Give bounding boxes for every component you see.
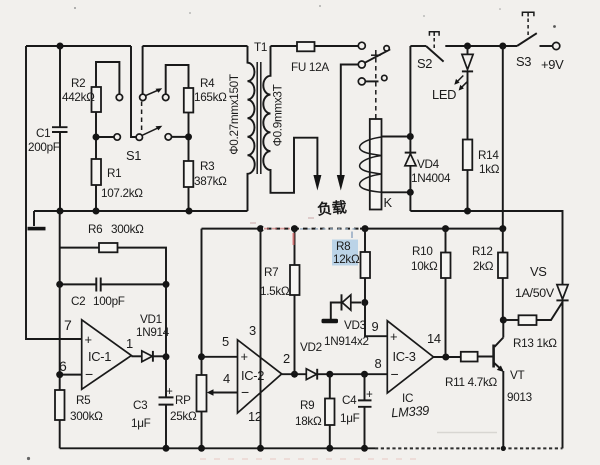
svg-text:R7: R7	[264, 266, 278, 279]
wire RP bottom to rail	[201, 412, 203, 449]
node junction RP top / pin5	[198, 353, 205, 360]
LED VD	[462, 46, 473, 140]
transformer T1 secondary winding	[263, 46, 317, 193]
resistor R11	[461, 352, 494, 362]
svg-text:+9V: +9V	[541, 57, 564, 72]
wire R2 bottom to R1 top	[95, 112, 97, 159]
wire relay common to load arrow	[341, 65, 359, 177]
wire right rail y211	[410, 211, 562, 284]
wire from upper-right contact to R4 top	[166, 65, 189, 94]
svg-text:S2: S2	[417, 56, 432, 71]
svg-text:100pF: 100pF	[93, 295, 125, 308]
svg-text:Φ0.9mmx3T: Φ0.9mmx3T	[272, 84, 285, 146]
resistor R8 (blue highlighted label)	[361, 229, 371, 303]
node junction VT emitter bottom	[501, 446, 506, 451]
svg-text:300kΩ: 300kΩ	[70, 410, 103, 423]
switch S1 lower pole: right contact	[165, 134, 171, 140]
relay armature bar	[371, 54, 381, 56]
transistor VT 9013	[494, 320, 504, 448]
node junction R3 bottom	[186, 208, 193, 215]
wire from upper-left contact to R2 top	[96, 62, 119, 94]
switch S3 arm	[517, 33, 537, 46]
switch S1 upper pole: right contact	[163, 94, 169, 100]
svg-text:R12: R12	[472, 245, 493, 258]
svg-text:1A/50V: 1A/50V	[515, 286, 555, 300]
svg-text:200pF: 200pF	[28, 141, 60, 154]
node junction R10 bottom / output	[442, 354, 449, 361]
wire top middle segment to transformer	[143, 45, 248, 47]
node junction R14 bottom	[464, 208, 471, 215]
scan faint mark bottom right	[437, 432, 497, 434]
node junction bus/R7	[291, 225, 298, 232]
wire S3 to +9V terminal	[540, 45, 553, 47]
node junction +9V column top	[499, 43, 506, 50]
svg-text:442kΩ: 442kΩ	[62, 91, 95, 104]
svg-text:R5: R5	[76, 394, 91, 407]
wire bottom rail (solid part)	[60, 447, 375, 449]
svg-text:+: +	[366, 388, 373, 401]
node junction R4/R3/S1b	[185, 133, 192, 140]
diode VD3	[331, 294, 361, 319]
node junction VD1/C3 column	[163, 353, 170, 360]
svg-text:−: −	[241, 384, 249, 400]
svg-text:1μF: 1μF	[131, 417, 151, 430]
node junction R9 top	[326, 371, 333, 378]
svg-text:VT: VT	[510, 369, 524, 382]
terminal +9V	[553, 42, 560, 49]
node junction LED column top	[464, 43, 471, 50]
resistor R14	[463, 140, 473, 171]
relay armature circle	[384, 46, 389, 51]
wire R3 bottom to rail	[188, 187, 190, 211]
diode VD2	[306, 369, 387, 380]
svg-text:+: +	[85, 332, 92, 347]
relay contact fixed 3	[358, 78, 365, 85]
svg-text:C2: C2	[71, 295, 85, 308]
node junction R9 bottom	[326, 445, 333, 452]
wire to switch S2	[410, 45, 426, 47]
resistor R6	[60, 243, 166, 284]
node junction C3 bottom	[163, 445, 170, 452]
svg-text:R2: R2	[71, 77, 85, 90]
load arrow (secondary side)	[313, 175, 321, 191]
wire left vertical down to IC-1 pin7	[26, 46, 82, 339]
svg-text:107.2kΩ: 107.2kΩ	[101, 187, 143, 200]
svg-text:K: K	[384, 195, 393, 210]
node junction R2/R1/S1b	[93, 134, 100, 141]
svg-text:R9: R9	[300, 399, 314, 412]
svg-text:1: 1	[126, 336, 133, 351]
svg-text:2: 2	[283, 351, 290, 366]
svg-text:R8: R8	[336, 240, 350, 253]
svg-text:300kΩ: 300kΩ	[111, 223, 144, 236]
relay contact common 2	[358, 61, 365, 68]
node coil top	[407, 133, 414, 140]
resistor R13	[503, 302, 562, 325]
svg-text:C1: C1	[36, 127, 50, 140]
switch S2 arm	[426, 46, 444, 62]
svg-text:R3: R3	[200, 160, 214, 173]
svg-text:1kΩ: 1kΩ	[479, 163, 500, 176]
svg-text:1N914x2: 1N914x2	[324, 335, 369, 348]
svg-text:R13 1kΩ: R13 1kΩ	[513, 337, 557, 350]
resistor R1	[92, 159, 102, 185]
node junction C4 bottom	[361, 445, 368, 452]
wire IC-1 pin 6	[60, 374, 82, 376]
switch S1 lower pole: left contact	[114, 134, 120, 140]
svg-text:25kΩ: 25kΩ	[170, 410, 197, 423]
svg-text:1.5kΩ: 1.5kΩ	[260, 285, 290, 298]
wire S1 lower-middle contact feed (from top wire)	[131, 46, 136, 137]
relay contact hook	[382, 75, 387, 80]
svg-text:VD1: VD1	[140, 313, 162, 326]
svg-text:FU 12A: FU 12A	[291, 61, 329, 74]
watermark faded bus segment	[263, 227, 360, 230]
op-amp IC-1	[82, 320, 132, 390]
switch S1 upper pole arm arrow	[146, 90, 159, 96]
svg-text:R6: R6	[88, 223, 102, 236]
capacitor C2	[60, 278, 166, 292]
switch S1 gang link (dashed)	[141, 102, 143, 132]
svg-text:−: −	[391, 366, 399, 382]
node junction bus/pin3 column	[257, 225, 264, 232]
LED emission arrows	[457, 76, 464, 83]
svg-text:9: 9	[372, 319, 379, 334]
wire S2 to S3	[445, 45, 517, 47]
ground symbol	[33, 211, 35, 226]
switch S1 lower pole: moving contact	[136, 134, 142, 140]
wire left column (rail to pin6/R5)	[59, 211, 61, 390]
capacitor C4 (electrolytic)	[358, 374, 373, 448]
svg-text:LED: LED	[432, 87, 456, 102]
op-amp IC-3	[387, 321, 433, 393]
wire RP column (bus left end down)	[201, 229, 203, 375]
resistor R12	[498, 229, 508, 320]
node junction C1 top	[57, 43, 64, 50]
wire VD4 column (top wire corner down to right rail)	[409, 46, 411, 211]
svg-text:4: 4	[223, 371, 230, 386]
relay mechanical link (dashed)	[375, 50, 377, 119]
node junction C4 top	[361, 371, 368, 378]
svg-text:1N914: 1N914	[136, 326, 170, 339]
node junction RP bottom	[198, 445, 205, 452]
resistor R3	[184, 161, 194, 187]
wire IC-2 pin3/pin12 column	[260, 229, 262, 449]
node junction C2 left	[56, 281, 63, 288]
svg-text:12: 12	[248, 409, 262, 424]
svg-text:R4: R4	[200, 77, 215, 90]
wire bottom rail (faded dashed part)	[375, 447, 563, 449]
svg-text:R10: R10	[412, 245, 433, 258]
wire R14 bottom	[467, 170, 469, 211]
wire top-left horizontal segment	[26, 45, 131, 47]
svg-text:C4: C4	[342, 394, 357, 407]
op-amp IC-2	[238, 340, 282, 413]
resistor R9	[325, 374, 335, 448]
resistor R2	[92, 87, 102, 112]
switch S2 button cap	[429, 32, 439, 36]
relay coil winding	[360, 137, 382, 192]
svg-text:1N4004: 1N4004	[411, 172, 451, 185]
svg-text:VD3: VD3	[344, 319, 366, 332]
wire relay contact 3 stub	[365, 80, 378, 82]
node junction R7 bottom / output	[291, 371, 298, 378]
wire IC-3 pin 9	[365, 303, 387, 337]
switch S3 button cap	[522, 12, 534, 16]
wire +9V column down to bus	[502, 46, 504, 229]
wire upper ground rail	[34, 210, 248, 212]
svg-text:R14: R14	[478, 149, 499, 162]
wire R1 bottom to rail	[95, 185, 97, 211]
svg-text:LM339: LM339	[391, 403, 430, 421]
svg-text:+: +	[241, 349, 248, 364]
scan specks top edge	[74, 7, 76, 9]
svg-text:T1: T1	[254, 41, 267, 54]
scan speck top right	[553, 25, 556, 28]
ground symbol (VD3)	[322, 319, 339, 323]
svg-text:Φ0.27mmx150T: Φ0.27mmx150T	[228, 74, 241, 155]
diode VD1	[142, 351, 166, 362]
switch S1 upper pole: moving contact	[140, 94, 146, 100]
node coil bottom	[407, 189, 414, 196]
node junction R1 bottom	[93, 208, 100, 215]
svg-text:IC-3: IC-3	[393, 349, 416, 364]
svg-text:RP: RP	[175, 394, 191, 407]
capacitor C1	[52, 46, 68, 211]
wire R4 bottom to R3 top	[188, 113, 190, 162]
svg-text:VD4: VD4	[417, 158, 440, 171]
svg-text:3: 3	[249, 323, 256, 338]
svg-text:S3: S3	[516, 54, 531, 69]
wire supply bus	[202, 228, 504, 230]
relay contact fixed 1	[358, 42, 365, 49]
svg-text:S1: S1	[126, 148, 141, 163]
switch S1 lower pole arm arrow	[142, 128, 158, 136]
svg-text:IC-1: IC-1	[88, 349, 111, 364]
svg-text:5: 5	[222, 334, 229, 349]
relay armature arm	[365, 49, 390, 62]
node junction bus/+9V column	[499, 225, 506, 232]
wire coil top tap	[382, 136, 411, 138]
wire IC-1 output	[131, 355, 141, 357]
svg-text:14: 14	[427, 331, 441, 346]
relay coil K core	[370, 119, 382, 210]
capacitor C3 (electrolytic)	[159, 284, 174, 448]
fuse FU	[271, 42, 359, 51]
node junction VD3/R8	[361, 299, 368, 306]
svg-text:8: 8	[375, 356, 382, 371]
wire IC-2 pin 5	[202, 356, 238, 358]
wire lower-right contact to R4/R3 junction	[172, 136, 189, 138]
watermark pink at bottom edge	[200, 458, 420, 460]
wire IC-2 pin 4 / RP wiper arrow	[212, 392, 238, 394]
svg-text:165kΩ: 165kΩ	[194, 91, 227, 104]
svg-text:18kΩ: 18kΩ	[295, 415, 322, 428]
svg-text:10kΩ: 10kΩ	[411, 260, 438, 273]
wire R5 bottom to rail	[59, 420, 61, 448]
wire S1 upper-middle contact stub	[142, 46, 144, 94]
transformer T1 core	[257, 62, 261, 174]
svg-text:VD2: VD2	[300, 341, 322, 354]
svg-text:1μF: 1μF	[340, 412, 360, 425]
node junction C1 bottom	[57, 208, 64, 215]
svg-text:R1: R1	[107, 167, 121, 180]
svg-text:+: +	[390, 329, 397, 344]
node junction R12/R13/VT collector	[500, 317, 507, 324]
wire IC-3 output	[434, 356, 461, 358]
node junction pin6/left column	[56, 371, 63, 378]
transformer T1 primary winding	[248, 46, 255, 211]
resistor R10	[441, 229, 451, 357]
svg-text:9013: 9013	[507, 391, 532, 404]
svg-text:12kΩ: 12kΩ	[333, 253, 360, 266]
node junction pin12 bottom	[257, 445, 264, 452]
node junction bus/R10	[442, 225, 449, 232]
svg-text:R11 4.7kΩ: R11 4.7kΩ	[445, 376, 498, 389]
svg-text:+: +	[166, 385, 173, 398]
resistor R5	[55, 390, 65, 420]
load arrow (relay side)	[337, 175, 345, 191]
svg-text:2kΩ: 2kΩ	[473, 260, 494, 273]
svg-text:6: 6	[59, 358, 67, 374]
wire coil bottom tap	[382, 191, 411, 193]
node junction bus/R8	[362, 225, 369, 232]
svg-text:−: −	[85, 366, 93, 382]
switch S1 upper pole: left contact	[116, 94, 122, 100]
scan speck bottom left	[27, 457, 30, 460]
wire lower-left contact to R2/R1 junction	[96, 136, 114, 138]
node junction C2/R6 right	[163, 281, 170, 288]
resistor R4	[184, 88, 194, 113]
resistor R7	[290, 229, 300, 375]
diode VD4	[405, 153, 417, 166]
wire IC-2 output	[282, 373, 307, 375]
potentiometer RP	[197, 375, 207, 412]
svg-text:C3: C3	[133, 399, 147, 412]
thyristor VS	[556, 285, 568, 449]
svg-text:7: 7	[64, 317, 72, 333]
svg-text:387kΩ: 387kΩ	[194, 175, 227, 188]
svg-text:VS: VS	[530, 264, 547, 279]
